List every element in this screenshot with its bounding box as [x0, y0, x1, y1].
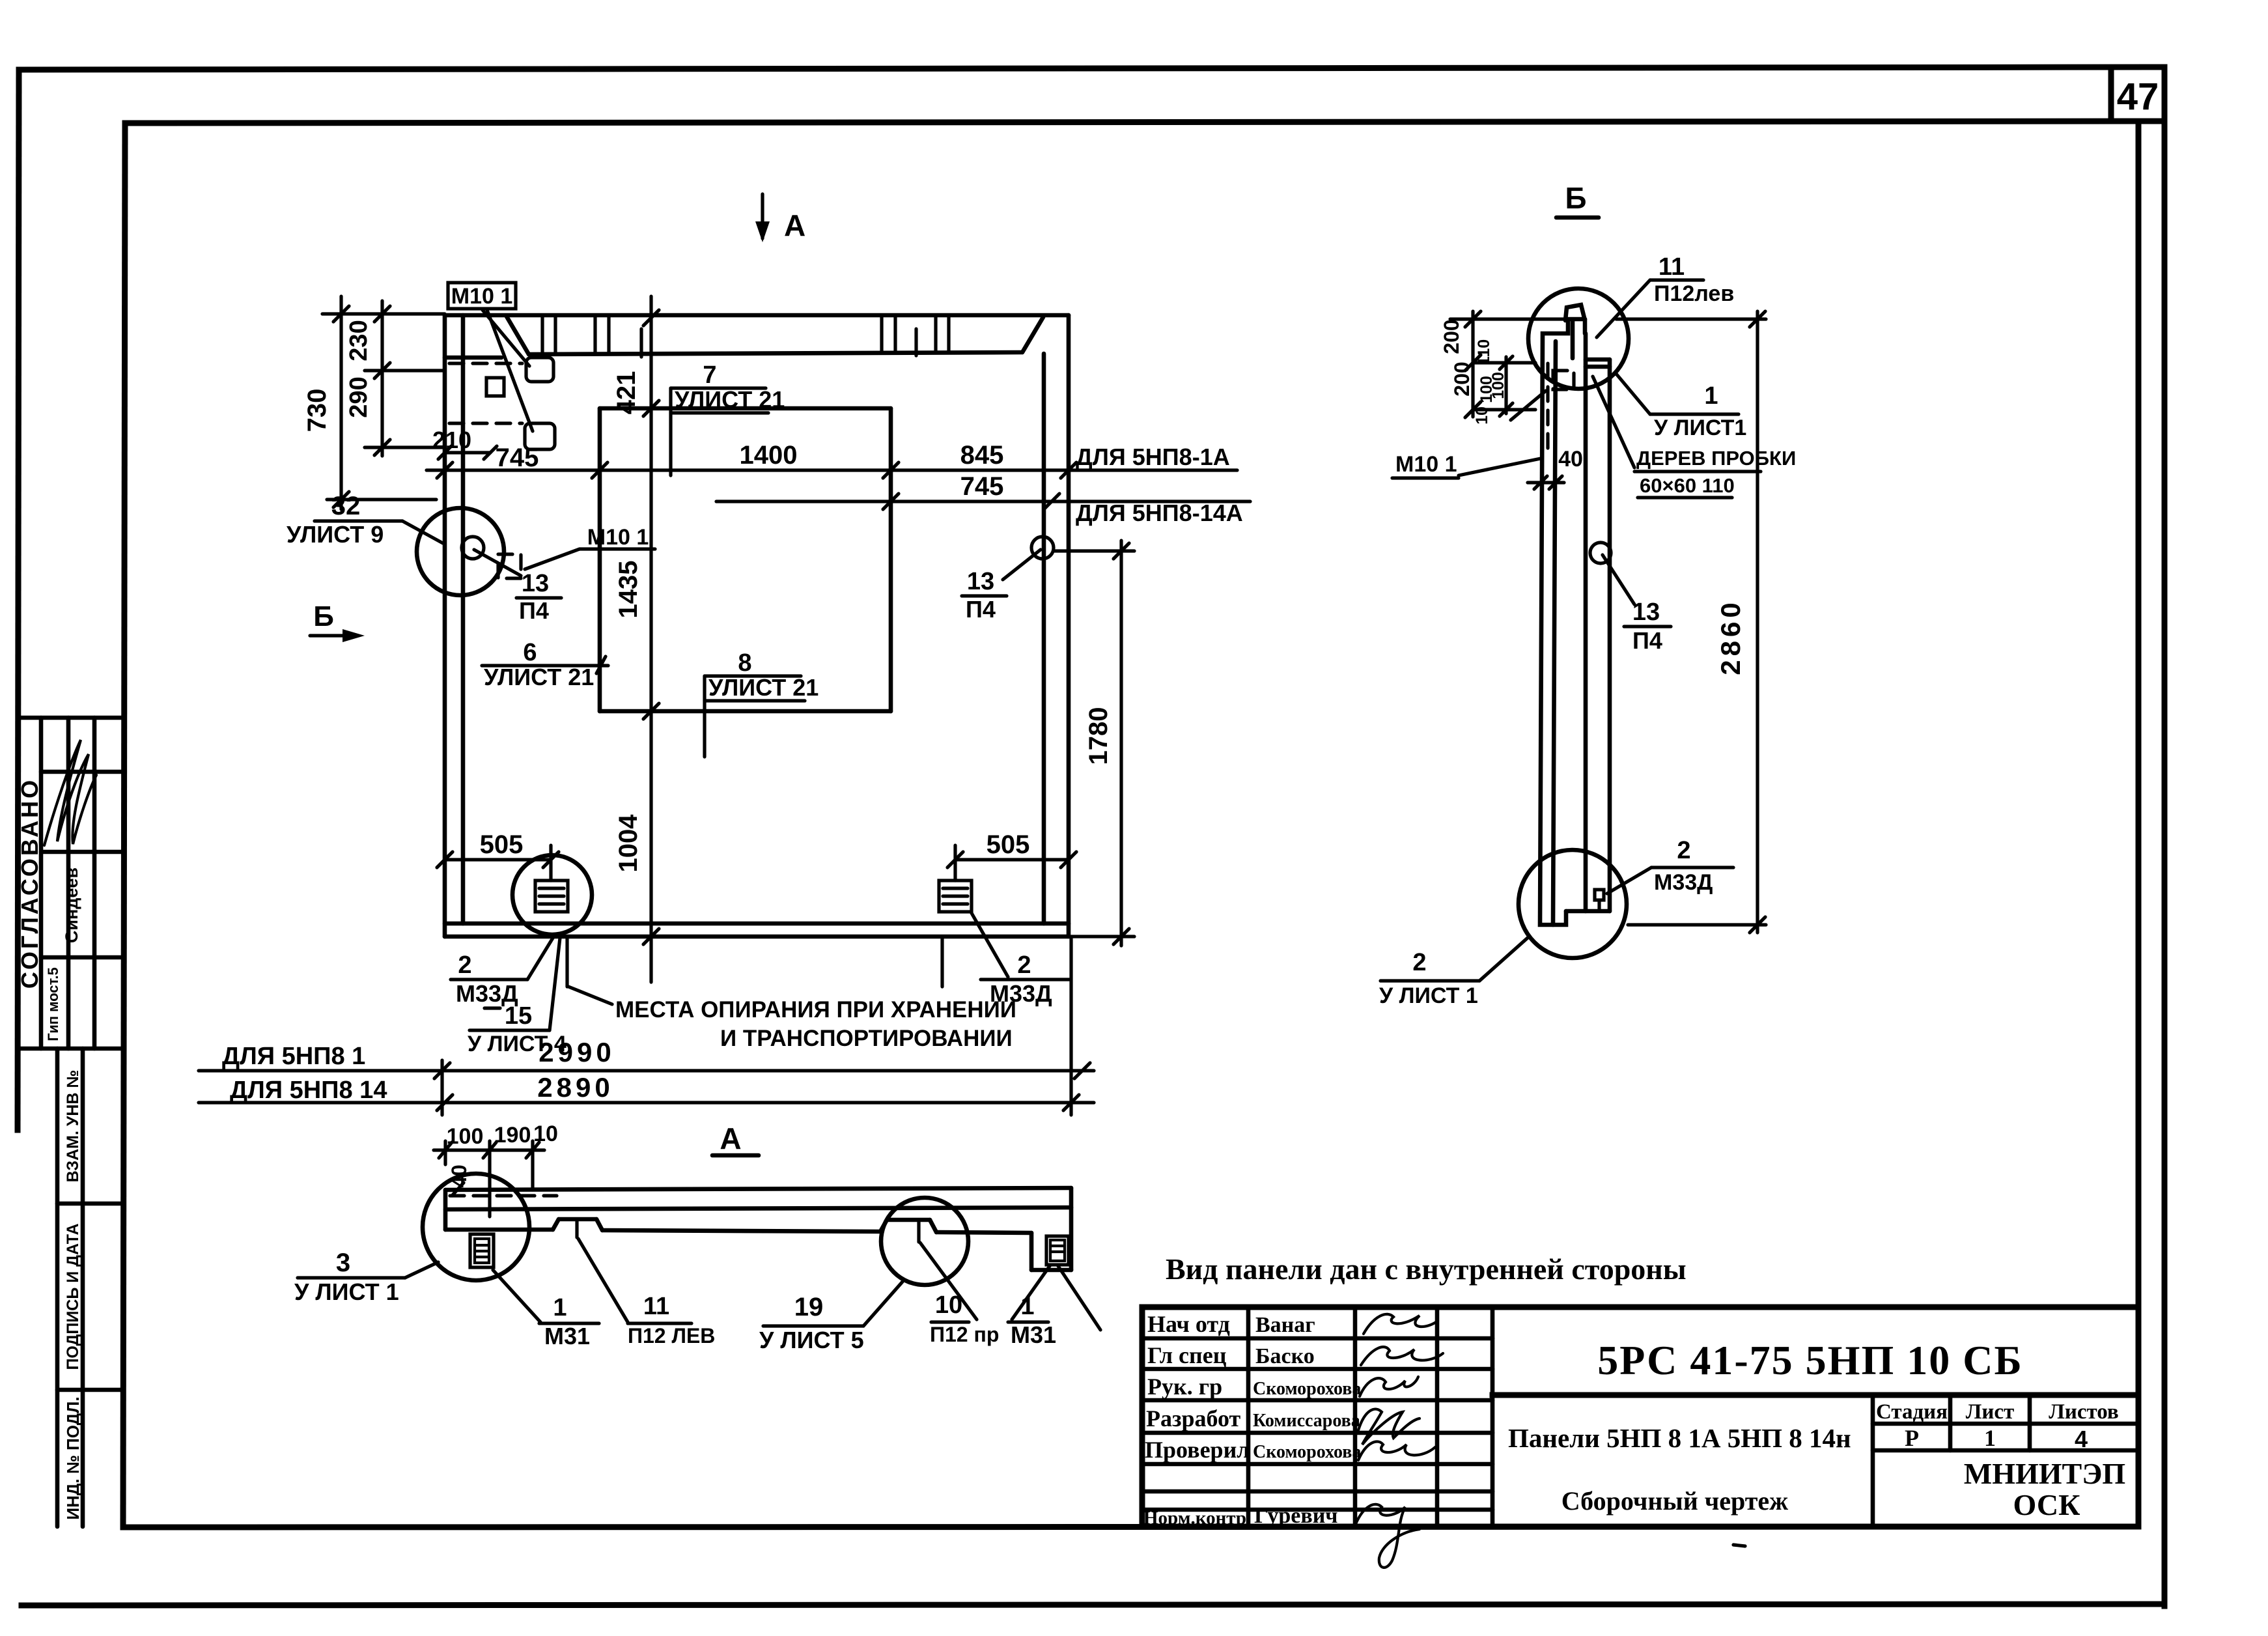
svg-text:П4: П4	[966, 596, 996, 623]
svg-text:421: 421	[612, 371, 641, 415]
washer П4 in Б	[1590, 543, 1671, 654]
inner drawing frame	[123, 121, 2138, 1527]
svg-text:МЕСТА ОПИРАНИЯ ПРИ ХРАНЕНИИ: МЕСТА ОПИРАНИЯ ПРИ ХРАНЕНИИ	[615, 997, 1016, 1022]
svg-text:П12лев: П12лев	[1654, 281, 1734, 306]
svg-text:1435: 1435	[614, 561, 643, 619]
svg-text:200: 200	[1450, 361, 1474, 396]
label 32 / УЛИСТ 9	[287, 492, 443, 548]
svg-text:5РС 41-75 5НП 10 СБ: 5РС 41-75 5НП 10 СБ	[1597, 1337, 2023, 1383]
svg-text:100: 100	[1489, 372, 1507, 399]
second chain 745 for 5НП8-14А	[716, 472, 1250, 526]
svg-text:МНИИТЭП: МНИИТЭП	[1964, 1457, 2125, 1490]
svg-text:Листов: Листов	[2049, 1400, 2119, 1424]
М10 dashed anchor in Б	[1548, 363, 1574, 456]
svg-text:190: 190	[494, 1123, 531, 1148]
svg-text:И ТРАНСПОРТИРОВАНИИ: И ТРАНСПОРТИРОВАНИИ	[720, 1026, 1013, 1051]
М31 box right	[1046, 1236, 1069, 1265]
svg-text:У ЛИСТ1: У ЛИСТ1	[1654, 416, 1746, 440]
overall dimension 2990	[199, 1037, 1094, 1115]
svg-text:П4: П4	[519, 597, 549, 624]
svg-text:19: 19	[794, 1293, 824, 1321]
label 19 / У ЛИСТ 5	[759, 1282, 903, 1353]
svg-text:2860: 2860	[1715, 599, 1746, 675]
svg-text:1400: 1400	[740, 441, 798, 470]
svg-text:ДЕРЕВ ПРОБКИ: ДЕРЕВ ПРОБКИ	[1636, 447, 1796, 470]
svg-text:ВЗАМ. УНВ №: ВЗАМ. УНВ №	[64, 1070, 82, 1183]
svg-text:Вид панели дан с внутренней ст: Вид панели дан с внутренней стороны	[1166, 1252, 1687, 1286]
section Б profile	[1540, 305, 1610, 925]
label 15 / У ЛИСТ 4	[468, 938, 567, 1056]
label М10 1 (middle)	[525, 525, 655, 569]
svg-text:60×60 110: 60×60 110	[1640, 474, 1735, 497]
anchor М33Д mark in Б bottom	[1595, 890, 1604, 911]
svg-text:1780: 1780	[1084, 707, 1113, 765]
svg-text:У ЛИСТ 5: У ЛИСТ 5	[759, 1327, 864, 1353]
label 2 / М33Д in Б	[1607, 837, 1733, 895]
label 10 / П12 пр	[920, 1243, 999, 1346]
svg-text:2990: 2990	[539, 1037, 615, 1067]
dimension 1780	[1055, 541, 1134, 946]
svg-text:845: 845	[960, 441, 1004, 470]
dimension 40 in Б	[1528, 447, 1583, 489]
svg-text:Рук. гр: Рук. гр	[1147, 1374, 1222, 1400]
label 2 / У ЛИСТ 1 in Б	[1379, 938, 1528, 1008]
detail circle at left edge	[417, 508, 504, 595]
section arrow Б (left)	[310, 600, 365, 642]
svg-text:УЛИСТ 9: УЛИСТ 9	[287, 521, 384, 548]
svg-text:ДЛЯ 5НП8-14А: ДЛЯ 5НП8-14А	[1076, 500, 1243, 526]
svg-text:2: 2	[1677, 837, 1690, 864]
organization	[1964, 1457, 2125, 1521]
section A profile	[445, 1188, 1071, 1270]
title block left column texts	[1143, 1311, 1361, 1529]
svg-text:М10 1: М10 1	[587, 525, 649, 550]
svg-text:УЛИСТ 21: УЛИСТ 21	[675, 386, 785, 413]
svg-text:2: 2	[458, 952, 471, 979]
Б left small dimensions cluster	[1440, 311, 1568, 425]
signature in agreement box	[44, 740, 96, 845]
svg-text:Сборочный чертеж: Сборочный чертеж	[1561, 1486, 1788, 1516]
svg-text:505: 505	[480, 830, 524, 859]
panel top band	[445, 317, 1043, 358]
svg-text:УЛИСТ 21: УЛИСТ 21	[708, 674, 819, 701]
svg-text:2: 2	[1017, 952, 1031, 979]
svg-text:1: 1	[553, 1294, 567, 1321]
left stamp column: box СОГЛАСОВАНО	[16, 718, 124, 1049]
svg-text:1004: 1004	[614, 814, 643, 873]
label 11 / П12лев in Б	[1597, 253, 1734, 337]
support М33Д left	[535, 881, 568, 912]
support М33Д right	[939, 881, 972, 912]
svg-text:110: 110	[1475, 339, 1493, 365]
svg-text:13: 13	[1632, 599, 1660, 626]
label 1 / У ЛИСТ1 in Б	[1616, 374, 1746, 440]
svg-text:505: 505	[987, 830, 1030, 859]
svg-text:П4: П4	[1632, 627, 1662, 654]
label 6 / УЛИСТ 21	[482, 639, 608, 690]
label 2 / М33Д right	[972, 913, 1069, 1007]
svg-text:Б: Б	[1565, 181, 1586, 215]
washer П4 left	[462, 537, 561, 624]
section arrow A (top)	[755, 194, 805, 242]
detail circle Б top	[1528, 289, 1629, 389]
svg-text:М10 1: М10 1	[1395, 452, 1457, 477]
svg-text:Гип мост.5: Гип мост.5	[45, 967, 61, 1041]
svg-text:10: 10	[1473, 406, 1491, 425]
svg-text:ИНД. № ПОДЛ.: ИНД. № ПОДЛ.	[63, 1396, 83, 1519]
svg-text:7: 7	[703, 361, 716, 389]
svg-text:Б: Б	[313, 600, 334, 632]
washer П4 right	[962, 537, 1054, 623]
label 2 / М33Д left	[451, 936, 554, 1007]
dimension 730	[303, 296, 349, 509]
svg-text:47: 47	[2117, 76, 2159, 118]
sheet number box 47	[2111, 68, 2164, 121]
svg-text:У ЛИСТ 1: У ЛИСТ 1	[1379, 983, 1478, 1008]
svg-text:230: 230	[345, 320, 372, 361]
label 8 / УЛИСТ 21	[705, 649, 819, 757]
svg-text:ДЛЯ 5НП8-1А: ДЛЯ 5НП8-1А	[1076, 444, 1230, 470]
svg-text:ПОДПИСЬ И ДАТА: ПОДПИСЬ И ДАТА	[64, 1223, 82, 1370]
dimension 505 right	[947, 830, 1076, 881]
detail circle A-right	[881, 1198, 968, 1285]
svg-text:15: 15	[505, 1002, 532, 1030]
detail circle at left support	[512, 855, 592, 935]
vertical dimension chain 421/1435/1004	[612, 296, 659, 982]
left stamp column: box ВЗАМ.ИНВ №	[57, 1049, 124, 1527]
dimension 210	[432, 427, 497, 459]
svg-text:6: 6	[523, 639, 537, 666]
panel front view outline	[445, 315, 1069, 937]
svg-text:210: 210	[432, 427, 471, 453]
svg-text:Нач отд: Нач отд	[1147, 1311, 1230, 1337]
svg-text:13: 13	[522, 570, 549, 597]
svg-text:Ванаг: Ванаг	[1255, 1313, 1315, 1337]
svg-text:2890: 2890	[537, 1072, 613, 1103]
svg-text:Р: Р	[1905, 1425, 1919, 1451]
svg-text:Скоморохова: Скоморохова	[1253, 1442, 1361, 1462]
svg-text:Стадия: Стадия	[1876, 1400, 1948, 1424]
svg-text:Скоморохова: Скоморохова	[1253, 1379, 1361, 1399]
svg-text:Проверил: Проверил	[1145, 1437, 1250, 1463]
detail circle Б bottom	[1519, 850, 1627, 958]
horizontal chain 745/1400/845	[427, 441, 1237, 478]
anchor loop M10 lower	[525, 423, 555, 449]
svg-text:745: 745	[496, 444, 539, 472]
section Б title	[1556, 181, 1599, 218]
title block frame	[1142, 1307, 2138, 1527]
support stems	[567, 938, 942, 987]
stray tick below title block	[1733, 1545, 1745, 1546]
svg-text:2: 2	[1412, 949, 1426, 976]
label М10 1 (top, boxed)	[448, 283, 533, 431]
svg-text:Комиссарова: Комиссарова	[1253, 1411, 1360, 1431]
dimension 505 left	[437, 830, 559, 881]
svg-text:3: 3	[336, 1248, 350, 1277]
svg-text:40: 40	[447, 1164, 471, 1188]
М31 box left	[470, 1234, 494, 1267]
svg-text:Норм.контр: Норм.контр	[1143, 1508, 1246, 1529]
svg-text:ДЛЯ 5НП8 14: ДЛЯ 5НП8 14	[230, 1077, 387, 1104]
stage/sheet headers	[1876, 1400, 2119, 1452]
label М10 1 in Б	[1392, 391, 1546, 478]
svg-text:Гл спец: Гл спец	[1147, 1342, 1227, 1368]
dashed anchor M10 below	[498, 554, 521, 578]
svg-text:11: 11	[1659, 253, 1685, 281]
svg-text:730: 730	[303, 389, 331, 432]
svg-text:745: 745	[960, 472, 1004, 501]
dims 100 190 10 above section A	[434, 1121, 558, 1217]
svg-text:Гуревич: Гуревич	[1254, 1504, 1337, 1528]
svg-text:Баско: Баско	[1255, 1344, 1315, 1368]
title block signatures	[1356, 1314, 1443, 1568]
svg-text:М10 1: М10 1	[451, 284, 513, 309]
svg-text:ОСК: ОСК	[2013, 1488, 2080, 1521]
svg-text:Лист: Лист	[1966, 1400, 2014, 1424]
svg-text:13: 13	[967, 568, 994, 595]
small embedded square	[486, 378, 504, 396]
label 3 / У ЛИСТ 1	[294, 1248, 438, 1305]
svg-text:1: 1	[1704, 382, 1718, 410]
svg-text:А: А	[720, 1121, 741, 1155]
svg-text:Разработ: Разработ	[1146, 1405, 1241, 1431]
svg-text:М31: М31	[544, 1323, 590, 1349]
note МЕСТА ОПИРАНИЯ	[568, 987, 1016, 1051]
left dimension witness lines	[322, 314, 445, 500]
svg-text:СОГЛАСОВАНО: СОГЛАСОВАНО	[16, 778, 43, 989]
svg-text:8: 8	[738, 649, 751, 677]
overall dimension 2890	[199, 937, 1094, 1115]
svg-text:М33Д: М33Д	[1654, 870, 1713, 895]
svg-text:П12 ЛЕВ: П12 ЛЕВ	[628, 1324, 715, 1347]
svg-text:М31: М31	[1011, 1321, 1056, 1348]
svg-text:1: 1	[1984, 1425, 1996, 1451]
section A title	[712, 1121, 759, 1155]
svg-text:ДЛЯ 5НП8 1: ДЛЯ 5НП8 1	[222, 1043, 365, 1070]
anchor loop M10 upper	[526, 358, 553, 382]
svg-text:Панели 5НП 8 1А 5НП 8 14н: Панели 5НП 8 1А 5НП 8 14н	[1508, 1423, 1851, 1453]
label 7 / УЛИСТ 21	[671, 361, 785, 475]
hidden dashed edges top-left	[449, 363, 522, 423]
label 1 / М31 right	[1008, 1266, 1100, 1348]
detail circle A-left	[423, 1174, 529, 1280]
label ДЕРЕВ ПРОБКИ 60х60 110	[1593, 376, 1796, 498]
svg-text:A: A	[784, 208, 805, 242]
svg-text:200: 200	[1440, 319, 1463, 354]
label 11 / П12 ЛЕВ	[578, 1239, 715, 1347]
svg-text:П12 пр: П12 пр	[930, 1323, 999, 1346]
svg-text:32: 32	[331, 492, 361, 520]
svg-text:Синдеев: Синдеев	[62, 867, 81, 943]
label 1 / М31 left	[493, 1270, 599, 1349]
svg-text:УЛИСТ 21: УЛИСТ 21	[484, 664, 594, 690]
dimension 2860	[1616, 311, 1766, 933]
svg-text:40: 40	[1558, 447, 1583, 472]
window opening	[600, 408, 891, 711]
svg-text:11: 11	[643, 1293, 669, 1320]
svg-text:100: 100	[447, 1124, 484, 1149]
П12 connector ticks on top band	[542, 317, 949, 357]
svg-text:4: 4	[2075, 1426, 2088, 1452]
svg-text:290: 290	[345, 376, 372, 417]
svg-text:У ЛИСТ 1: У ЛИСТ 1	[294, 1278, 399, 1305]
dimensions 230 / 290	[345, 301, 390, 456]
